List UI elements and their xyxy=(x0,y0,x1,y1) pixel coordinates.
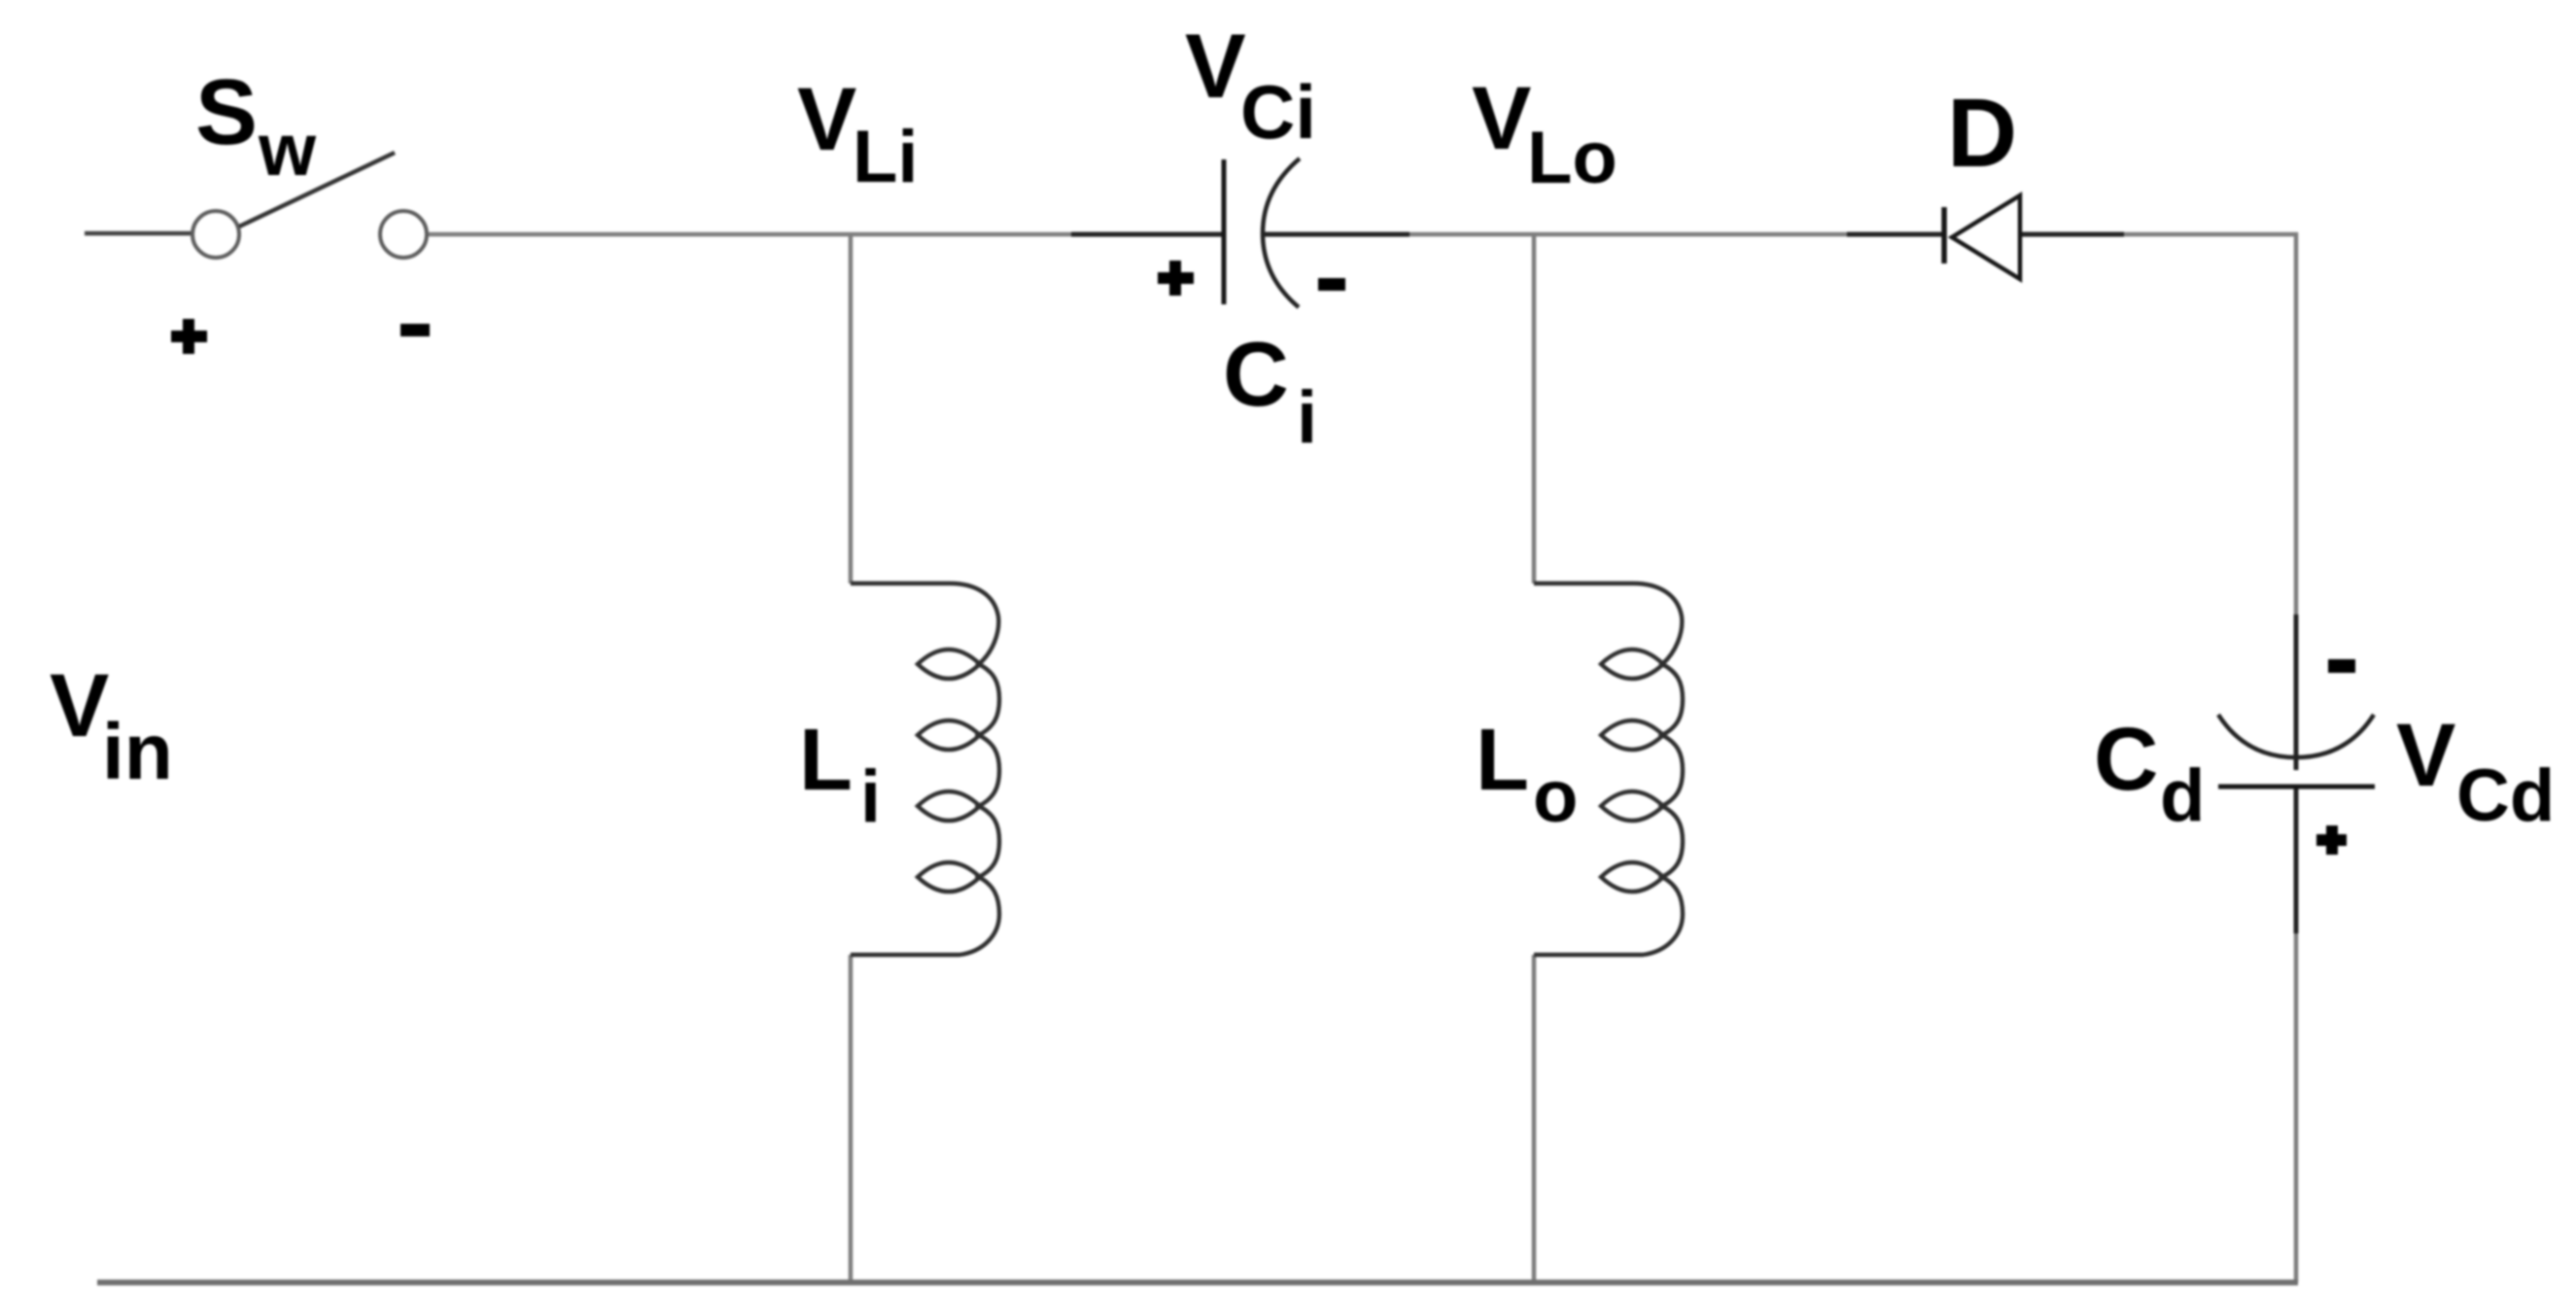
svg-text:D: D xyxy=(1947,79,2017,188)
svg-text:L: L xyxy=(1476,712,1529,809)
svg-text:w: w xyxy=(258,109,317,192)
svg-text:i: i xyxy=(1297,376,1317,459)
svg-text:S: S xyxy=(195,60,258,164)
svg-text:Li: Li xyxy=(853,116,919,198)
svg-text:V: V xyxy=(1185,15,1246,117)
svg-text:V: V xyxy=(797,70,856,169)
svg-text:d: d xyxy=(2160,755,2205,837)
svg-text:V: V xyxy=(2396,706,2455,805)
svg-text:Cd: Cd xyxy=(2456,755,2555,837)
svg-text:V: V xyxy=(1472,69,1531,168)
svg-text:Ci: Ci xyxy=(1240,69,1316,155)
svg-text:in: in xyxy=(102,708,173,796)
svg-text:C: C xyxy=(1223,323,1289,425)
svg-text:o: o xyxy=(1533,755,1578,838)
svg-text:i: i xyxy=(860,755,881,838)
svg-text:Lo: Lo xyxy=(1527,117,1618,199)
svg-text:L: L xyxy=(799,712,853,809)
svg-text:V: V xyxy=(50,656,109,755)
svg-text:C: C xyxy=(2094,710,2158,809)
